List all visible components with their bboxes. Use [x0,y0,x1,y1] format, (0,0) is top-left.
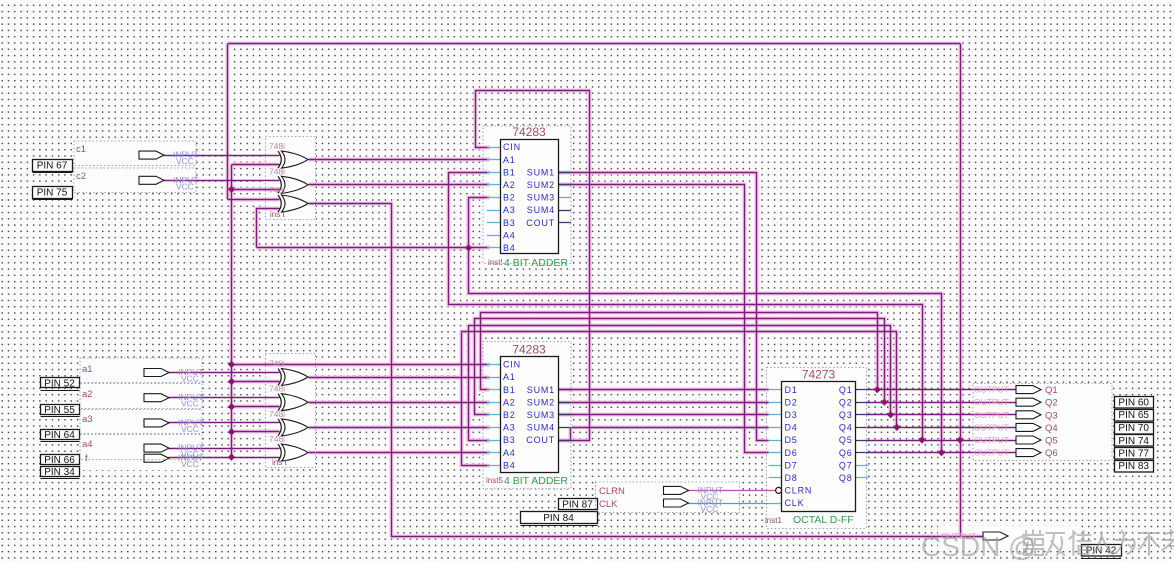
XOR gate 7486 #6 (a3^f) [269,409,308,436]
svg-text:748i: 748i [269,434,285,444]
wire Q1 to output [867,389,1017,391]
pin box PIN 52 [41,378,80,391]
node Q3 junction [887,411,894,418]
svg-text:SUM3: SUM3 [527,410,555,420]
svg-text:SUM4: SUM4 [527,205,555,215]
svg-text:c2: c2 [76,171,86,182]
svg-text:Q6: Q6 [1045,448,1058,459]
op-amp U1: 4-bit adder 74283 (upper) [487,125,571,269]
svg-text:Q2: Q2 [839,397,853,407]
node XOR2-lower junction [228,186,235,193]
svg-text:A4: A4 [503,230,516,240]
octal D-FF 74273 [765,368,869,527]
node f junction [228,454,235,461]
svg-text:748i: 748i [269,359,285,369]
svg-text:748i: 748i [269,384,285,394]
node XOR4-lower junction [228,378,235,385]
node XOR6-lower junction [228,428,235,435]
pin box PIN 66 [41,455,80,467]
CLRN inverter bubble [776,487,782,493]
wire c2 to XOR2 [164,180,280,182]
svg-text:B4: B4 [503,243,516,253]
pin box PIN 64 [41,430,80,442]
XOR gate 7486 #3 [269,185,308,212]
wire a1 to XOR4 [169,372,280,374]
svg-text:PIN 74: PIN 74 [1118,436,1149,447]
output Q6 [974,448,1058,460]
wire XOR5 lower input [232,406,280,408]
svg-text:CSDN @: CSDN @ [921,531,1037,562]
svg-text:VCC: VCC [176,156,194,166]
wire XOR3 lower input riser [257,209,280,248]
wire adder2 SUM3 to D3 [559,414,769,416]
wire Q2 to output [867,402,1017,404]
wire adder2 SUM2 to D2 [559,402,769,404]
svg-text:Q5: Q5 [839,435,853,445]
svg-text:OUTPUT: OUTPUT [974,448,1009,458]
pin box PIN 55 [41,405,80,417]
input c2 [76,171,199,191]
output Q1 [974,385,1058,397]
input f [85,453,204,470]
svg-text:OUTPUT: OUTPUT [974,385,1009,395]
wire CLRN input [688,490,776,492]
wire XOR5 out to A2 [309,402,490,404]
input c1 [76,144,199,166]
wire XOR4 lower input [232,381,280,383]
svg-text:Q2: Q2 [1045,398,1058,409]
svg-text:D2: D2 [785,397,798,407]
node Q5/PIN42 junction [956,436,963,443]
svg-text:Q5: Q5 [1045,436,1058,447]
node CIN2 junction [228,361,235,368]
node Q2 junction [881,399,888,406]
pin box PIN 65 [1115,410,1154,422]
pin box PIN 84 [521,512,598,526]
pin box PIN 67 [33,160,73,173]
svg-text:B2: B2 [503,410,516,420]
svg-text:PIN 64: PIN 64 [44,430,75,441]
svg-text:ins t: ins t [270,210,285,219]
output Q3 [974,410,1058,422]
svg-text:OUTPUT: OUTPUT [974,422,1009,432]
wire XOR2 lower input [232,189,280,191]
svg-text:CLK: CLK [599,499,618,510]
node Q4 junction [893,424,900,431]
svg-text:748i: 748i [269,166,285,176]
svg-text:OCTAL D-FF: OCTAL D-FF [793,514,854,526]
svg-text:D4: D4 [785,423,798,433]
svg-text:SUM4: SUM4 [527,423,555,433]
wire c1 to XOR1 [164,155,280,157]
wire top net [228,43,961,45]
svg-text:PIN 65: PIN 65 [1118,410,1149,421]
wire adder2 SUM1 to D1 [559,389,769,391]
svg-text:D1: D1 [785,385,798,395]
wire Q6 to output [867,452,1017,454]
svg-text:B3: B3 [503,218,516,228]
wire XOR6 out to A3 [309,427,490,429]
svg-text:A3: A3 [503,205,516,215]
node Q6 junction [938,449,945,456]
svg-text:SUM3: SUM3 [527,193,555,203]
pin box PIN 77 [1115,448,1154,460]
svg-text:A2: A2 [503,397,516,407]
svg-text:74283: 74283 [512,343,546,357]
pin box PIN 87 [559,499,598,512]
wire adder2 SUM4 to D4 [572,427,769,429]
svg-text:OUTPUT: OUTPUT [974,410,1009,420]
svg-text:SUM2: SUM2 [527,180,555,190]
svg-text:Q1: Q1 [1045,385,1058,396]
output PIN42 net [941,531,1008,541]
svg-text:SUM1: SUM1 [527,385,555,395]
node Q1 junction [874,386,881,393]
svg-text:Q4: Q4 [839,423,853,433]
svg-text:A4: A4 [503,448,516,458]
svg-text:748i: 748i [269,141,285,151]
svg-text:748i: 748i [269,185,285,195]
output Q2 [974,397,1058,409]
input a3 [82,414,204,434]
svg-text:PIN 66: PIN 66 [44,455,75,466]
XOR gate 7486 #1 (c1^f) [269,141,308,168]
XOR gate 7486 #4 (a1^f) [269,359,308,386]
svg-text:D6: D6 [785,448,798,458]
svg-text:Q3: Q3 [839,410,853,420]
wire SUM4 jog [570,428,572,441]
wire a2 to XOR5 [169,397,280,399]
XOR gate 7486 #7 (a4^f) [269,434,308,461]
svg-text:B3: B3 [503,435,516,445]
wire Q4 to output [867,427,1017,429]
svg-text:74273: 74273 [802,368,836,382]
svg-text:a4: a4 [82,439,93,450]
wire Q1 feedback [481,313,878,390]
svg-text:OUTPUT: OUTPUT [974,435,1009,445]
wire right long vertical [960,44,962,537]
pin box PIN 34 [41,467,80,479]
selected-net pink halo [228,44,984,537]
wire to XOR3 upper input [228,199,280,201]
output Q4 [974,422,1058,434]
node Q5 junction [918,436,925,443]
svg-text:COUT: COUT [526,218,555,228]
pin box PIN 60 [1115,397,1154,409]
svg-text:D5: D5 [785,435,798,445]
svg-text:A1: A1 [503,372,516,382]
svg-text:COUT: COUT [526,435,555,445]
wire adder1 SUM1 to D5 [559,173,769,441]
svg-text:748i: 748i [269,409,285,419]
4-bit adder 74283 (lower) [486,343,571,488]
wire adder1 B1 feedback [449,173,923,441]
svg-text:74283: 74283 [512,125,546,139]
input a1 [82,364,204,384]
wire XOR7 out to A4 [309,452,490,454]
svg-text:CLK: CLK [785,498,805,508]
svg-text:a2: a2 [82,389,93,400]
XOR gate 7486 #5 (a2^f) [269,384,308,411]
svg-text:PIN 75: PIN 75 [37,187,68,198]
wire f-net vertical [231,165,233,458]
svg-text:VCC: VCC [181,399,199,409]
svg-text:inst1: inst1 [765,516,782,525]
svg-text:CLRN: CLRN [599,486,625,497]
input CLRN [599,485,723,502]
svg-text:a1: a1 [82,364,93,375]
pin box PIN 83 [1115,461,1154,473]
wire a4 to XOR7 [169,448,280,450]
input CLK [599,498,723,515]
svg-text:inst5: inst5 [486,476,503,485]
svg-text:A3: A3 [503,423,516,433]
svg-text:a3: a3 [82,414,93,425]
svg-text:A1: A1 [503,155,516,165]
svg-text:Q1: Q1 [839,385,853,395]
wire left vertical to XOR3 [227,44,229,200]
background clearings [74,141,196,166]
svg-text:inst!: inst! [488,258,503,267]
svg-text:PIN 67: PIN 67 [37,160,68,171]
svg-text:D3: D3 [785,410,798,420]
svg-text:PIN 52: PIN 52 [44,378,75,389]
wire Q3 feedback [469,326,891,441]
wire CLK input [688,503,769,505]
svg-text:Q6: Q6 [839,448,853,458]
selection dotted outlines [74,126,1112,529]
svg-text:Q3: Q3 [1045,410,1058,421]
input a2 [82,389,204,409]
pin box PIN 70 [1115,423,1154,435]
wire B4 row [257,247,490,249]
svg-text:VCC: VCC [181,459,199,469]
svg-text:4 BIT ADDER: 4 BIT ADDER [504,475,568,487]
input a4 [82,439,204,459]
svg-text:c1: c1 [76,144,86,155]
wire XOR4 out to A1 [309,377,490,379]
svg-text:PIN 60: PIN 60 [1118,398,1149,409]
node XOR5-lower junction [228,403,235,410]
pin box PIN 74 [1115,435,1154,447]
svg-text:VCC: VCC [181,374,199,384]
svg-text:A2: A2 [503,180,516,190]
svg-text:f: f [85,453,88,464]
svg-text:Q7: Q7 [839,460,853,470]
wire adder1 B2 feedback [469,198,942,453]
wire adder2 COUT stub wire [559,440,571,442]
svg-text:Q8: Q8 [839,473,853,483]
svg-text:PIN 84: PIN 84 [543,513,574,524]
wire Q4 feedback [462,332,897,466]
XOR gate 7486 #2 (c2^f) [269,166,308,193]
svg-text:VCC: VCC [181,424,199,434]
wire adder1 SUM2 to D6 [559,185,769,453]
svg-text:PIN 70: PIN 70 [1118,423,1149,434]
wire Q3 to output [867,414,1017,416]
wire f input to XOR7 [169,457,280,459]
svg-text:CIN: CIN [503,142,521,152]
wire to adder2 CIN [232,364,490,366]
svg-text:PIN 87: PIN 87 [562,500,593,511]
CSDN watermark [921,531,1037,562]
wire Q5 to output [867,440,1017,442]
svg-text:OUTPUT: OUTPUT [974,397,1009,407]
svg-text:PIN 83: PIN 83 [1118,461,1149,472]
wire XOR1 out to A1 [309,159,490,161]
svg-text:B1: B1 [503,385,516,395]
wire XOR1 lower input [232,164,280,166]
svg-text:PIN 55: PIN 55 [44,405,75,416]
svg-text:4 BIT ADDER: 4 BIT ADDER [504,257,568,269]
svg-text:B2: B2 [503,193,516,203]
svg-text:D8: D8 [785,473,798,483]
svg-text:CIN: CIN [503,360,521,370]
wire XOR2 out to A2 [309,184,490,186]
svg-text:D7: D7 [785,460,798,470]
svg-text:Q4: Q4 [1045,423,1058,434]
wire Q2 feedback [475,319,885,415]
svg-text:VCC: VCC [176,181,194,191]
svg-text:PIN 77: PIN 77 [1118,449,1149,460]
svg-text:B4: B4 [503,460,516,470]
wire XOR3 out to PIN42 net [309,204,984,537]
wire XOR6 lower input [232,431,280,433]
wire adder1 CIN loop [476,91,590,441]
svg-text:PIN 34: PIN 34 [44,467,75,478]
wire a3 to XOR6 [169,422,280,424]
svg-text:B1: B1 [503,167,516,177]
output Q5 [974,435,1058,447]
svg-text:SUM1: SUM1 [527,167,555,177]
node B2/B4 junction [465,244,472,251]
pin box PIN 75 [33,187,73,200]
svg-text:ins t: ins t [272,458,287,467]
svg-text:SUM2: SUM2 [527,397,555,407]
pin box PIN 42 [1081,545,1122,559]
svg-text:CLRN: CLRN [785,486,813,496]
